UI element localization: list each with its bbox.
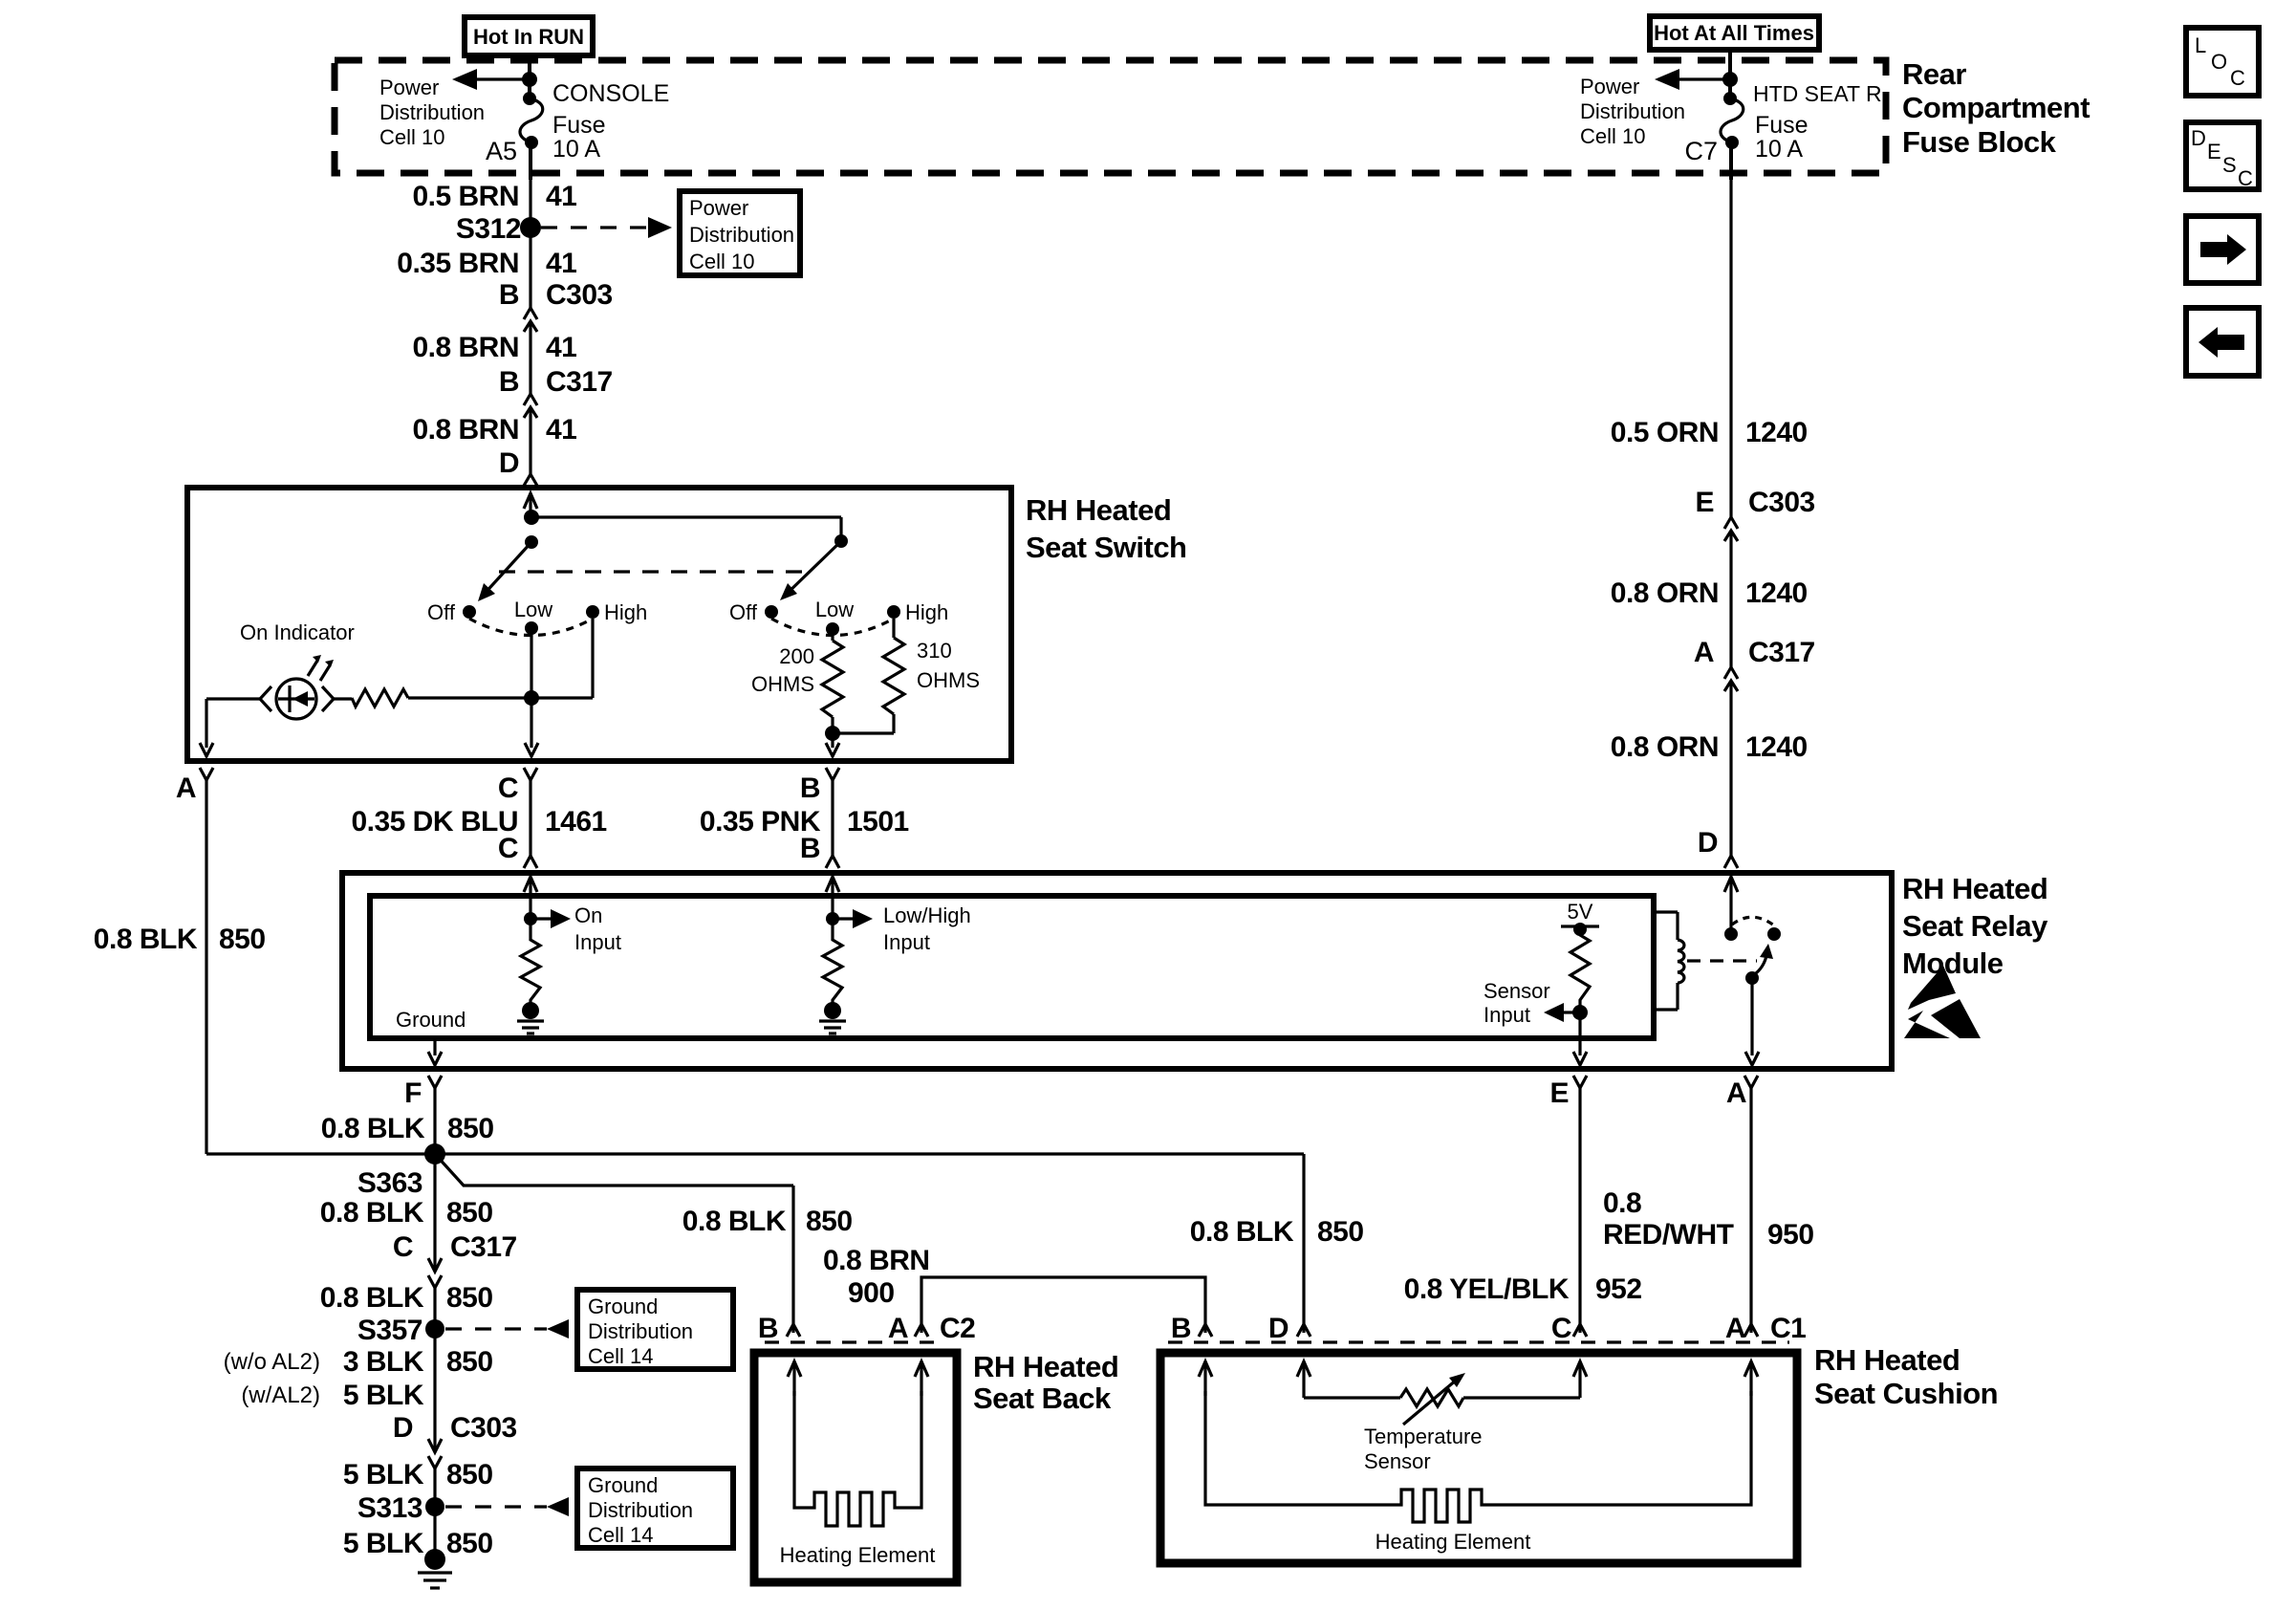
svg-text:A: A — [1726, 1077, 1746, 1109]
LOC button box — [2186, 28, 2259, 96]
svg-text:1240: 1240 — [1745, 731, 1808, 763]
heating element (cushion) — [1205, 1391, 1751, 1554]
svg-text:310: 310 — [917, 639, 952, 663]
wire 0.8 ORN 1240 (C303 to C317) — [1611, 577, 1808, 609]
svg-text:B: B — [800, 833, 820, 864]
dashed gang link between arms — [499, 570, 812, 573]
wire: Hot At All Times feed — [1728, 50, 1732, 97]
connector C2 pin B fork — [758, 1313, 800, 1344]
switch pin C connector and wire 0.35 DK BLU 1461 — [351, 768, 606, 868]
cushion pin B entry arrow — [1199, 1361, 1212, 1396]
splice S312 — [456, 213, 541, 245]
wire 0.8 YEL/BLK 952 (relay E to cushion C) — [1404, 1273, 1642, 1305]
svg-text:C317: C317 — [1748, 637, 1815, 668]
svg-text:850: 850 — [806, 1206, 853, 1237]
svg-text:F: F — [404, 1077, 422, 1109]
svg-text:E: E — [1549, 1077, 1569, 1109]
connector C317 pin A (in-line) — [1694, 637, 1815, 856]
svg-text:Module: Module — [1902, 946, 2004, 980]
svg-text:Ground: Ground — [588, 1473, 658, 1497]
svg-text:RH Heated: RH Heated — [1026, 493, 1171, 527]
svg-text:Sensor: Sensor — [1484, 979, 1550, 1003]
wire 5 BLK 850 (C303 to S313) — [343, 1459, 493, 1490]
svg-text:D: D — [1698, 827, 1718, 859]
svg-text:Cell 10: Cell 10 — [1580, 124, 1645, 148]
svg-text:S313: S313 — [357, 1492, 422, 1524]
connector C317 pin B (in-line) — [499, 366, 613, 474]
RH Heated Seat Back box — [754, 1350, 1118, 1582]
resistor (sensor pull-up) — [1570, 929, 1590, 1006]
svg-text:B: B — [800, 772, 820, 804]
svg-text:S357: S357 — [357, 1315, 422, 1346]
wire: fuse C7 output down — [1729, 142, 1733, 180]
svg-text:0.8 BLK: 0.8 BLK — [320, 1197, 424, 1229]
svg-text:B: B — [499, 366, 519, 398]
svg-text:0.8 BRN: 0.8 BRN — [412, 332, 519, 363]
svg-text:Distribution: Distribution — [588, 1498, 693, 1522]
wire 0.8 ORN 1240 (C317 to relay pin D) — [1611, 731, 1808, 763]
wire: S363 to cushion pin D (horizontal) — [435, 1154, 1364, 1333]
svg-text:High: High — [604, 600, 647, 624]
svg-text:0.35 DK BLU: 0.35 DK BLU — [351, 806, 518, 838]
ground (Low/High input) — [819, 1002, 846, 1033]
svg-text:Temperature: Temperature — [1364, 1425, 1483, 1448]
svg-text:41: 41 — [546, 181, 576, 212]
seat back pin A entry arrow — [915, 1361, 928, 1396]
svg-text:Ground: Ground — [588, 1295, 658, 1318]
svg-text:Sensor: Sensor — [1364, 1449, 1431, 1473]
svg-text:Cell 14: Cell 14 — [588, 1523, 653, 1547]
wire: LED line to Low junction — [334, 697, 352, 700]
svg-text:OHMS: OHMS — [751, 672, 814, 696]
right-arrow button box — [2186, 216, 2259, 283]
rear compartment fuse block (dashed outline) — [335, 60, 1886, 173]
switch pin A connector below box — [176, 768, 213, 1154]
svg-text:0.8 BRN: 0.8 BRN — [412, 414, 519, 446]
svg-text:Distribution: Distribution — [1580, 99, 1685, 123]
Sensor Input arrow — [1484, 979, 1588, 1027]
relay pin E connector — [1549, 1076, 1587, 1333]
wire 5 BLK 850 (S313 to ground G303) — [343, 1507, 493, 1559]
Power Distribution Cell 10 reference box — [680, 191, 800, 275]
svg-text:D: D — [1268, 1313, 1289, 1344]
svg-text:RH Heated: RH Heated — [973, 1350, 1118, 1383]
svg-text:850: 850 — [446, 1282, 493, 1314]
svg-text:C: C — [393, 1231, 413, 1263]
relay coil — [1654, 912, 1684, 1010]
arrow to Power Distribution Cell 10 (left) — [452, 69, 537, 90]
svg-text:952: 952 — [1595, 1273, 1642, 1305]
wire 0.8 BLK 850 (S363 down to C317) — [320, 1154, 493, 1271]
switch 2 terminals Off Low High — [729, 598, 948, 636]
svg-text:HTD SEAT R: HTD SEAT R — [1753, 81, 1882, 106]
svg-text:Fuse: Fuse — [552, 112, 606, 139]
svg-text:C: C — [1551, 1313, 1571, 1344]
svg-text:0.5 ORN: 0.5 ORN — [1611, 417, 1719, 448]
wire 3 BLK / 5 BLK 850 (S357 to C303) — [224, 1329, 493, 1451]
connector C1 dashed line — [1168, 1340, 1789, 1343]
relay pin D entry arrow — [1724, 877, 1738, 934]
svg-text:C: C — [498, 772, 518, 804]
svg-text:Distribution: Distribution — [379, 100, 485, 124]
wire: Low1 terminal down to pin C — [524, 628, 539, 756]
svg-text:C: C — [2230, 66, 2245, 90]
svg-text:5 BLK: 5 BLK — [343, 1459, 424, 1490]
svg-text:A: A — [1725, 1313, 1745, 1344]
svg-text:0.8 BRN: 0.8 BRN — [823, 1245, 930, 1276]
svg-text:850: 850 — [446, 1459, 493, 1490]
wire 0.5 BRN 41 (A5 to S312) — [412, 180, 576, 228]
svg-text:Low: Low — [514, 598, 552, 621]
svg-text:0.8 ORN: 0.8 ORN — [1611, 731, 1719, 763]
switch pin D connector — [499, 447, 537, 486]
svg-text:O: O — [2211, 50, 2227, 74]
svg-text:Distribution: Distribution — [588, 1319, 693, 1343]
svg-text:C303: C303 — [546, 279, 613, 311]
svg-text:850: 850 — [1317, 1216, 1364, 1248]
splice S363 — [357, 1143, 445, 1199]
DESC button box — [2186, 122, 2259, 190]
wire 0.8 BRN 900 (seat back A to cushion B) — [823, 1245, 1205, 1333]
svg-text:850: 850 — [446, 1346, 493, 1378]
svg-text:On: On — [574, 903, 602, 927]
svg-text:L: L — [2195, 33, 2206, 57]
heating element (seat back) — [780, 1391, 936, 1567]
svg-text:Seat Back: Seat Back — [973, 1382, 1112, 1415]
svg-text:D: D — [393, 1412, 413, 1444]
relay pin B entry arrow (Low/High Input) — [826, 877, 839, 919]
relay pin C entry arrow (On Input) — [524, 877, 537, 919]
svg-text:950: 950 — [1767, 1219, 1814, 1251]
svg-text:(w/AL2): (w/AL2) — [241, 1382, 320, 1408]
cushion pin D entry arrow — [1297, 1361, 1310, 1398]
svg-text:41: 41 — [546, 414, 576, 446]
svg-text:1461: 1461 — [545, 806, 607, 838]
seat back pin B entry arrow — [788, 1361, 801, 1396]
svg-text:5 BLK: 5 BLK — [343, 1380, 424, 1411]
wire: High1 terminal down and left — [408, 619, 593, 698]
svg-text:C303: C303 — [1748, 487, 1815, 518]
svg-text:E: E — [1695, 487, 1714, 518]
svg-text:1240: 1240 — [1745, 577, 1808, 609]
svg-text:5V: 5V — [1568, 900, 1593, 924]
svg-text:0.8 BLK: 0.8 BLK — [320, 1282, 424, 1314]
svg-text:850: 850 — [446, 1197, 493, 1229]
wire: S363 diagonal branch to seat back pin B — [435, 1154, 853, 1333]
svg-text:Input: Input — [574, 930, 621, 954]
svg-text:Hot In RUN: Hot In RUN — [473, 25, 584, 49]
svg-text:1240: 1240 — [1745, 417, 1808, 448]
svg-text:A5: A5 — [486, 137, 517, 165]
wire: relay common to pin A — [1745, 978, 1759, 1065]
label Rear Compartment Fuse Block — [1902, 57, 2090, 159]
svg-text:Compartment: Compartment — [1902, 91, 2090, 124]
switch 1 terminals Off Low High — [427, 598, 647, 636]
svg-text:C317: C317 — [450, 1231, 517, 1263]
svg-text:Hot At All Times: Hot At All Times — [1654, 21, 1814, 45]
connector C1 pin B fork — [1171, 1313, 1212, 1344]
relay pin A connector — [1726, 1076, 1758, 1333]
svg-text:10 A: 10 A — [552, 136, 600, 163]
svg-text:850: 850 — [219, 924, 266, 955]
svg-text:CONSOLE: CONSOLE — [552, 80, 669, 107]
svg-text:Seat Switch: Seat Switch — [1026, 531, 1187, 564]
svg-text:0.5 BRN: 0.5 BRN — [412, 181, 519, 212]
wire 0.5 ORN 1240 (C7 to C303) — [1611, 180, 1808, 517]
wire 0.8 BRN 41 (C303 to C317) — [412, 332, 576, 363]
svg-text:Cell 10: Cell 10 — [379, 125, 444, 149]
svg-text:1501: 1501 — [847, 806, 909, 838]
connector C1 pin A fork — [1725, 1313, 1807, 1344]
relay contacts — [1724, 917, 1781, 941]
svg-text:B: B — [499, 279, 519, 311]
svg-text:A: A — [888, 1313, 908, 1344]
switch pin B connector and wire 0.35 PNK 1501 — [700, 768, 909, 868]
svg-text:Fuse Block: Fuse Block — [1902, 125, 2057, 159]
LED On Indicator — [240, 620, 355, 719]
svg-text:Power: Power — [379, 76, 439, 99]
relay module inner box — [370, 896, 1654, 1038]
fuse HTD SEAT R Fuse 10 A — [1721, 81, 1882, 163]
switch arm 2 (right, Low/High switch) — [780, 534, 848, 600]
svg-text:A: A — [1694, 637, 1714, 668]
svg-text:Seat Relay: Seat Relay — [1902, 909, 2048, 943]
dashed reference arrow S313 to Ground Distribution Cell 14 — [445, 1497, 569, 1516]
cushion pin A entry arrow — [1744, 1361, 1758, 1396]
svg-text:Power: Power — [1580, 75, 1639, 98]
fuse CONSOLE Fuse 10 A — [520, 80, 669, 163]
left-arrow button box — [2186, 308, 2259, 376]
Ground Distribution Cell 14 box (lower) — [577, 1469, 733, 1548]
dashed mechanical link — [1687, 959, 1757, 962]
wire 0.8 BLK 850 (C317 to S357) — [320, 1282, 493, 1314]
temperature sensor wiring — [1304, 1373, 1580, 1473]
svg-text:0.35 BRN: 0.35 BRN — [397, 248, 519, 279]
svg-text:Low: Low — [815, 598, 854, 621]
svg-text:E: E — [2207, 140, 2221, 163]
relay pin D connector — [1698, 827, 1738, 868]
svg-text:Rear: Rear — [1902, 57, 1966, 91]
svg-text:Off: Off — [729, 600, 758, 624]
arrow to Power Distribution Cell 10 (right side) — [1655, 69, 1738, 90]
svg-text:Input: Input — [883, 930, 930, 954]
svg-text:Distribution: Distribution — [689, 223, 794, 247]
wire: sensor line to pin E — [1573, 1012, 1587, 1065]
connector C303 pin E (in-line) — [1695, 487, 1814, 667]
connector C1 pin D fork — [1268, 1313, 1310, 1344]
svg-text:Off: Off — [427, 600, 456, 624]
svg-text:Input: Input — [1484, 1003, 1530, 1027]
svg-text:0.8 YEL/BLK: 0.8 YEL/BLK — [1404, 1273, 1570, 1305]
svg-text:Cell 10: Cell 10 — [689, 250, 754, 273]
Hot In RUN box — [465, 17, 593, 55]
svg-text:0.8 BLK: 0.8 BLK — [94, 924, 198, 955]
svg-text:OHMS: OHMS — [917, 668, 980, 692]
splice S357 — [357, 1315, 444, 1346]
relay armature — [1745, 944, 1773, 985]
svg-text:S: S — [2222, 153, 2237, 177]
connector C303 pin B (in-line) — [499, 279, 613, 394]
connector C317 pin C (in-line, ground side) — [393, 1231, 517, 1329]
svg-text:Heating Element: Heating Element — [1375, 1530, 1531, 1554]
svg-text:B: B — [1171, 1313, 1191, 1344]
Hot At All Times box — [1650, 16, 1819, 50]
text Power Distribution Cell 10 (left, in fuse block) — [379, 76, 485, 149]
svg-text:(w/o AL2): (w/o AL2) — [224, 1349, 320, 1375]
wire 0.35 BRN 41 (S312 to C303) — [397, 228, 576, 308]
Ground label and exit wire to pin F — [396, 1008, 466, 1065]
svg-text:3 BLK: 3 BLK — [343, 1346, 424, 1378]
svg-text:Heating Element: Heating Element — [780, 1543, 936, 1567]
svg-text:C303: C303 — [450, 1412, 517, 1444]
svg-text:B: B — [758, 1313, 778, 1344]
ESD sensitive device symbol — [1904, 966, 1981, 1038]
svg-text:RH Heated: RH Heated — [1814, 1343, 1960, 1377]
svg-text:D: D — [499, 447, 519, 479]
svg-text:S312: S312 — [456, 213, 521, 245]
wire 0.8 BLK 850 (F to S363) — [321, 1113, 494, 1144]
node + Low/High Input arrow — [826, 903, 971, 954]
wire 0.8 BLK 850 (switch A to S363) — [94, 924, 266, 955]
wire 0.8 BRN 41 (C317 to switch pin D) — [412, 414, 576, 446]
wire: pin D entry arrow into switch — [524, 493, 537, 517]
ground (On input) — [517, 1002, 544, 1033]
wire: Hot In RUN feed into fuse block — [528, 55, 531, 97]
resistor 200 OHMS — [751, 629, 843, 733]
resistor 310 OHMS — [833, 619, 980, 733]
splice S313 — [357, 1492, 444, 1524]
svg-text:850: 850 — [447, 1113, 494, 1144]
5V supply — [1561, 900, 1599, 936]
node: switch feed junction — [524, 510, 841, 541]
svg-text:0.8 BLK: 0.8 BLK — [321, 1113, 425, 1144]
wire: LED to pin A — [200, 699, 260, 756]
svg-text:C1: C1 — [1770, 1313, 1806, 1344]
svg-text:RH Heated: RH Heated — [1902, 872, 2047, 905]
svg-text:On Indicator: On Indicator — [240, 620, 355, 644]
svg-text:900: 900 — [848, 1277, 895, 1309]
wire: fuse output down through fuse block edge — [529, 142, 532, 180]
svg-text:Cell 14: Cell 14 — [588, 1344, 653, 1368]
resistor (On input pulldown) — [521, 919, 540, 1007]
RH Heated Seat Relay Module outer box — [342, 872, 2048, 1069]
node: resistor junction to pin B — [825, 726, 840, 756]
svg-text:41: 41 — [546, 248, 576, 279]
svg-text:C2: C2 — [940, 1313, 975, 1344]
svg-text:41: 41 — [546, 332, 576, 363]
svg-text:Power: Power — [689, 196, 748, 220]
connector C2 pin A fork — [888, 1313, 976, 1344]
resistor (indicator series) — [352, 689, 408, 707]
dashed reference arrow S312 to Power Distribution Cell 10 — [541, 217, 672, 238]
svg-text:A: A — [176, 772, 196, 804]
svg-text:D: D — [2191, 126, 2206, 150]
svg-text:High: High — [905, 600, 948, 624]
svg-text:Fuse: Fuse — [1755, 112, 1809, 139]
svg-text:C: C — [2238, 166, 2253, 190]
svg-text:Low/High: Low/High — [883, 903, 971, 927]
svg-text:RED/WHT: RED/WHT — [1603, 1219, 1734, 1251]
relay pin F connector — [404, 1076, 442, 1154]
connector C1 pin C fork — [1551, 1313, 1587, 1344]
svg-text:Ground: Ground — [396, 1008, 466, 1032]
svg-text:0.8 ORN: 0.8 ORN — [1611, 577, 1719, 609]
svg-text:200: 200 — [779, 644, 814, 668]
RH Heated Seat Cushion box — [1160, 1343, 1998, 1563]
svg-text:C317: C317 — [546, 366, 613, 398]
connector C2 dashed line — [765, 1340, 935, 1343]
svg-text:C: C — [498, 833, 518, 864]
svg-text:Seat Cushion: Seat Cushion — [1814, 1377, 1998, 1410]
svg-text:0.8 BLK: 0.8 BLK — [682, 1206, 787, 1237]
svg-text:850: 850 — [446, 1528, 493, 1559]
svg-text:0.8 BLK: 0.8 BLK — [1190, 1216, 1294, 1248]
node + On Input arrow — [524, 903, 621, 954]
connector C303 pin D (in-line, ground side) — [393, 1412, 517, 1507]
svg-text:5 BLK: 5 BLK — [343, 1528, 424, 1559]
Ground Distribution Cell 14 box (upper) — [577, 1290, 733, 1369]
svg-text:10 A: 10 A — [1755, 136, 1803, 163]
switch arm 1 (left, On switch) — [478, 535, 538, 601]
wire 0.8 RED/WHT 950 (relay A to cushion A) — [1603, 1187, 1814, 1251]
resistor (Low/High input pulldown) — [823, 919, 842, 1007]
text Power Distribution Cell 10 (right, in fuse block) — [1580, 75, 1685, 148]
wire: switch A to S363 (horizontal) — [206, 1152, 435, 1155]
ground G303 — [418, 1549, 452, 1588]
RH Heated Seat Switch box — [187, 488, 1187, 761]
svg-text:S363: S363 — [357, 1167, 422, 1199]
cushion pin C entry arrow — [1573, 1361, 1587, 1398]
svg-text:C7: C7 — [1684, 137, 1718, 165]
dashed reference arrow S357 to Ground Distribution Cell 14 — [445, 1319, 569, 1338]
svg-text:0.8: 0.8 — [1603, 1187, 1641, 1219]
